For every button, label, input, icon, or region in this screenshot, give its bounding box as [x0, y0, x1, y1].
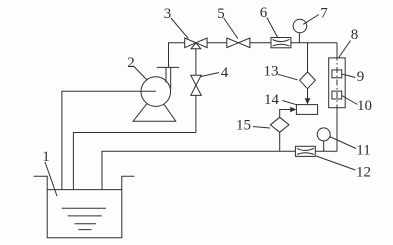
svg-text:9: 9: [357, 69, 365, 85]
leader line 1: [45, 162, 57, 196]
specimen 9 square: [332, 70, 342, 78]
flowmeter 12 body: [295, 146, 315, 156]
svg-text:4: 4: [221, 65, 229, 81]
wire: valve 5 to flowmeter 6: [250, 42, 271, 44]
wire: right vertical down to column 8: [336, 43, 338, 58]
leader line 2: [134, 66, 147, 80]
svg-text:5: 5: [217, 6, 225, 22]
leader line 3: [171, 18, 188, 39]
svg-text:8: 8: [351, 27, 359, 43]
wire: bottom return line B to tank: [102, 151, 337, 189]
wire: return line A to tank: [73, 133, 195, 190]
wire: filter 15 bottom stem to line B: [279, 132, 281, 151]
leader line 9: [342, 74, 356, 78]
valve 3 (three-way valve): [185, 38, 196, 48]
svg-text:7: 7: [320, 6, 328, 22]
svg-text:2: 2: [127, 55, 135, 71]
svg-text:15: 15: [236, 118, 251, 134]
wire: flowmeter 6 to right corner: [291, 42, 337, 44]
leader line 5: [224, 18, 238, 39]
leader line 13: [278, 74, 298, 80]
leader line 15: [253, 127, 270, 128]
wire: valve 4 down to return line A: [195, 95, 197, 132]
wire: filter 15 top hook to box 14 with arrow: [280, 110, 291, 118]
collector box 14: [296, 105, 317, 115]
test column 8 body: [329, 58, 346, 108]
svg-text:1: 1: [42, 149, 50, 165]
valve 5 (gate valve): [227, 38, 239, 48]
leader line 11: [330, 137, 357, 149]
filter 13 diamond: [300, 72, 316, 89]
leader line 12: [316, 156, 355, 170]
svg-text:14: 14: [264, 92, 280, 108]
wire: filter 13 to box 14 with arrow: [307, 89, 309, 99]
leader line 8: [339, 41, 351, 58]
pump P2 triangle base: [133, 93, 176, 122]
svg-text:13: 13: [264, 64, 279, 80]
pressure gauge 7: [293, 19, 307, 33]
tank 1 outline with flanges: [34, 176, 135, 238]
pump P2 outlet flange bar: [157, 66, 180, 68]
svg-text:12: 12: [356, 165, 371, 181]
wire: valve 3 down branch to valve 4: [195, 49, 197, 76]
svg-text:10: 10: [357, 98, 372, 114]
wire: gauge 7 stem: [298, 33, 300, 43]
specimen 10 square: [332, 91, 342, 99]
flowmeter 6 body: [271, 38, 291, 48]
flowmeter 12 inner venturi arcs: [297, 148, 314, 154]
svg-text:11: 11: [356, 143, 370, 159]
wire: valve 3 to valve 5: [207, 42, 227, 44]
leader line 14: [283, 101, 297, 105]
pressure gauge 11: [317, 128, 330, 141]
pump P2 outlet nozzle lines: [166, 67, 171, 88]
wire: branch from top line down to filter 13: [307, 43, 309, 72]
tank 1 water symbol: [62, 208, 106, 229]
test column 8 dash-dot centerline: [336, 55, 338, 112]
wire: pump suction pipe from tank: [62, 91, 156, 189]
leader line 4: [201, 73, 219, 77]
wire: pump outlet riser to valve 3: [169, 43, 185, 68]
valve 4 (vertical bowtie): [191, 75, 202, 85]
filter 15 diamond: [270, 117, 289, 132]
tank 1 liquid surface line: [47, 189, 122, 191]
pump P2 circle body: [141, 77, 171, 107]
leader line 10: [342, 96, 358, 105]
svg-text:3: 3: [164, 6, 172, 22]
wire: right vertical below column 8 to bottom line: [336, 108, 338, 152]
svg-text:6: 6: [260, 5, 268, 21]
flowmeter 6 inner venturi arcs: [273, 39, 290, 46]
leader line 7: [303, 15, 319, 25]
wire: gauge 11 stem: [323, 141, 325, 151]
leader line 6: [267, 17, 278, 37]
